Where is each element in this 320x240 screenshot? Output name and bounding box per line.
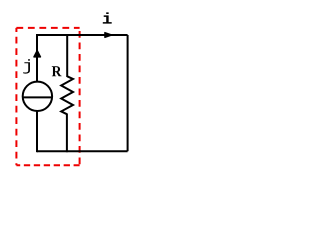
wire: right side of loop [127,35,129,151]
wire: bottom (return node) [37,150,128,152]
resistor R zigzag body [61,76,73,114]
wire: current source bottom lead [36,111,38,153]
current source symbol (circle with transverse bar) [23,82,52,111]
wire: resistor bottom lead [66,114,68,153]
arrow: source current j pointing up [34,50,41,57]
wire: current source top lead [36,34,38,82]
label j (current source) [23,59,30,73]
label R (resistor) [52,66,62,76]
dashed boundary box (red), left edge [15,28,17,165]
wire: top (node between source, resistor and output loop) [37,34,128,36]
dashed boundary box (red), right edge [79,28,81,165]
dashed boundary box (red), bottom edge [16,164,79,166]
label i (loop current) [103,12,112,23]
wire: resistor top lead [66,34,68,77]
dashed boundary box (red), top edge [16,27,79,29]
arrow: loop current i pointing right [105,33,112,38]
